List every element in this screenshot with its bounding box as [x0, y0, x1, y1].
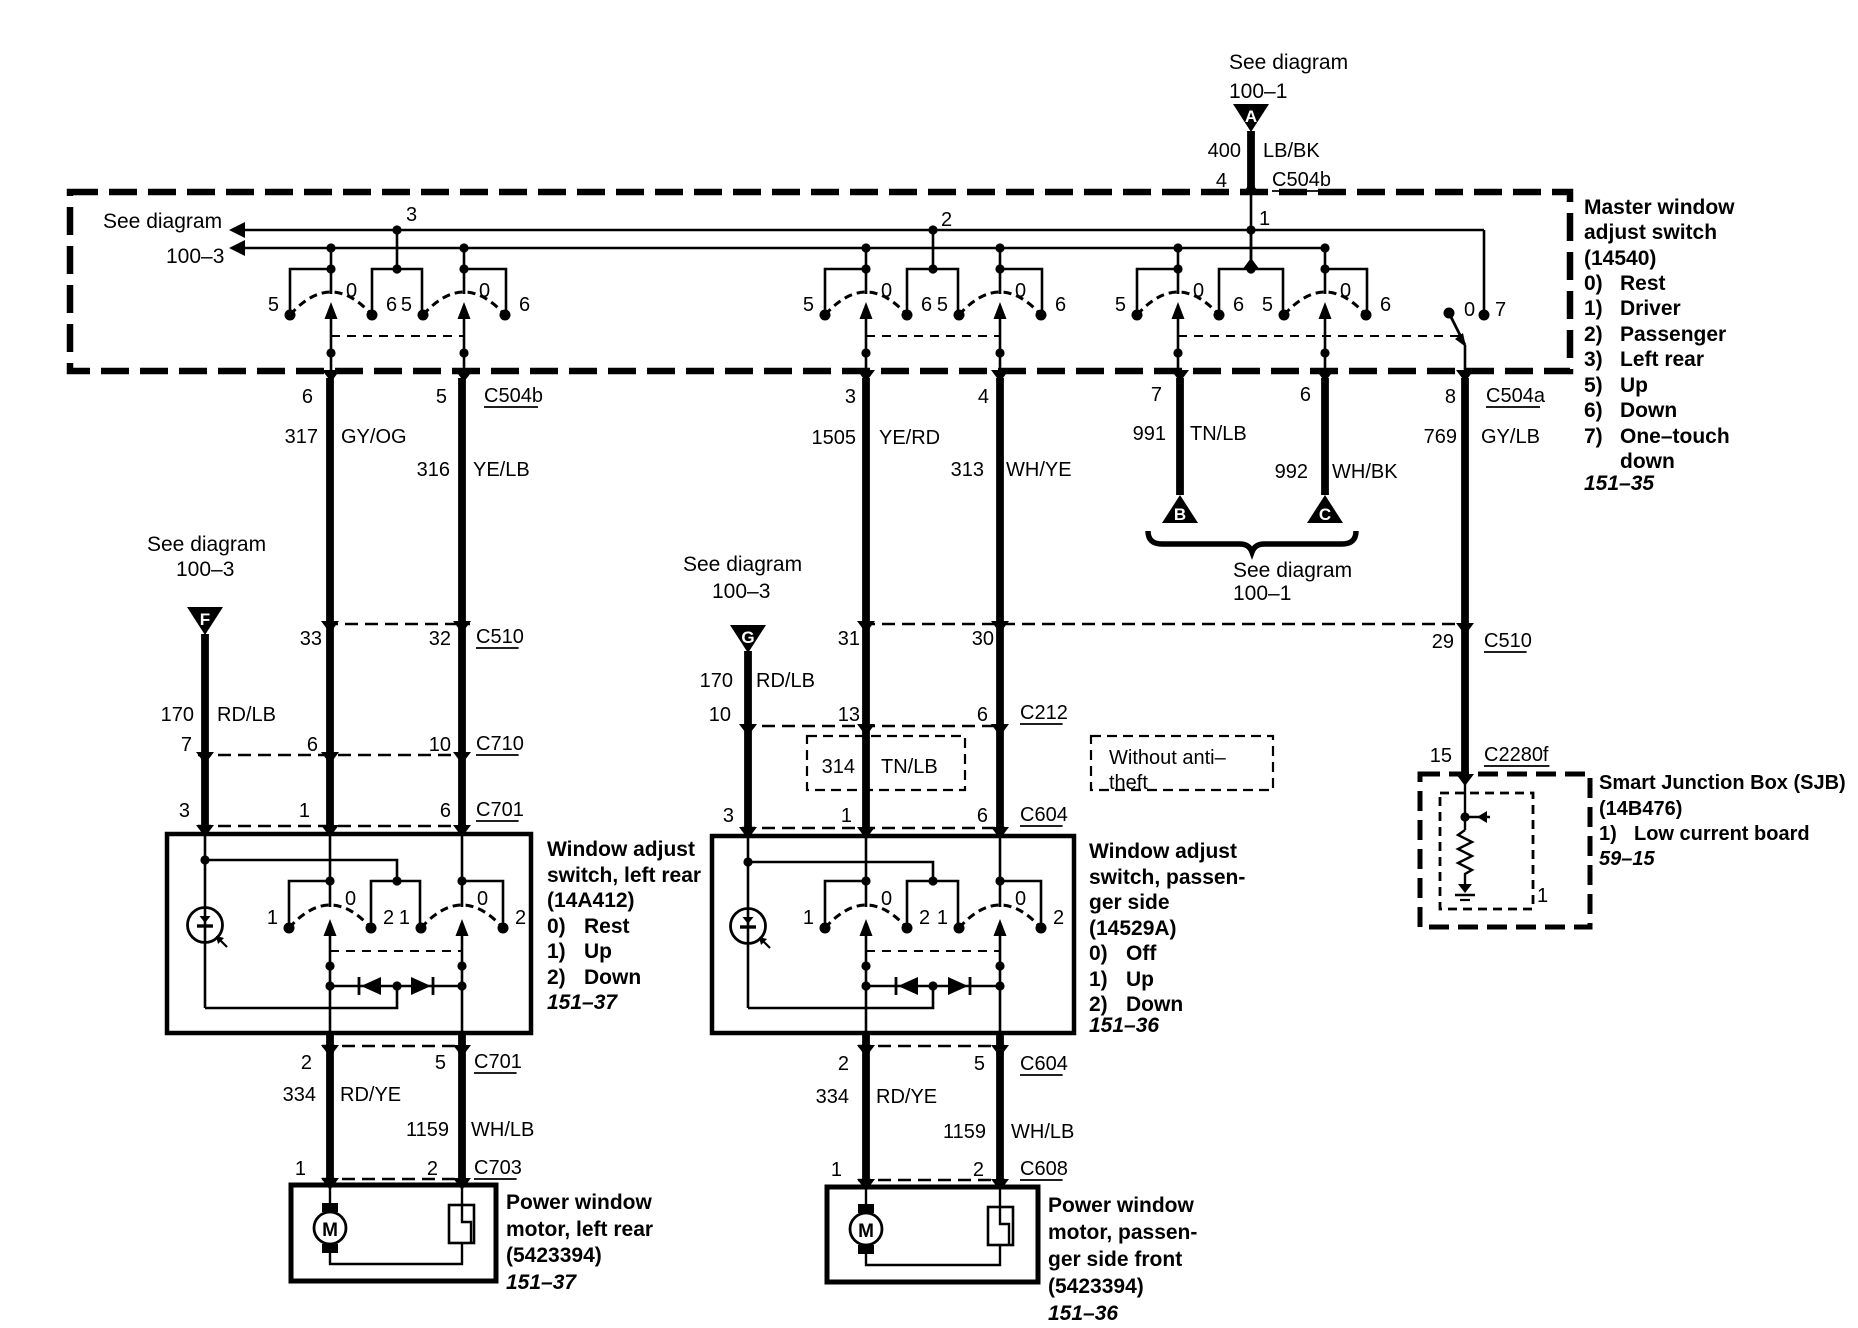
svg-text:1159: 1159	[943, 1121, 986, 1143]
svg-text:2): 2)	[1089, 993, 1108, 1016]
svg-text:GY/LB: GY/LB	[1481, 426, 1540, 448]
svg-text:100–3: 100–3	[176, 558, 234, 581]
off-page connector triangle B	[1162, 495, 1198, 523]
svg-text:Rest: Rest	[1620, 272, 1666, 295]
passenger switch unit UP (1-0-2) - contact bracket	[825, 881, 866, 926]
wire 317 GY/OG (pin 6 to left-rear switch)	[326, 378, 334, 826]
svg-text:See diagram: See diagram	[147, 533, 266, 556]
pole wires to box bottom (passenger switch)	[865, 986, 868, 1033]
svg-text:3: 3	[723, 805, 734, 827]
svg-text:2): 2)	[1584, 323, 1603, 346]
wire: circuit 3 bus to See diagram 100-3	[244, 229, 1484, 232]
left-rear switch unit UP (1-0-2) - wiper arc	[289, 905, 371, 928]
switch unit master driver one-touch (5-0-6) right - wiper arc	[423, 292, 505, 315]
pin 6 wire into left-rear switch	[461, 826, 464, 881]
wire 313 WH/YE (pin 4 to passenger switch)	[996, 378, 1004, 828]
svg-text:(5423394): (5423394)	[1048, 1275, 1144, 1298]
switch unit master driver up/down (5-0-6) left - contact bracket	[290, 269, 331, 313]
svg-text:5: 5	[268, 294, 279, 316]
pin 1 wire into left-rear switch	[329, 826, 332, 881]
svg-text:0: 0	[1193, 280, 1204, 302]
svg-text:1: 1	[299, 800, 310, 822]
passenger switch unit DOWN (1-0-2) - wiper arc	[959, 905, 1041, 928]
svg-text:RD/LB: RD/LB	[217, 704, 276, 726]
svg-text:RD/LB: RD/LB	[756, 670, 815, 692]
svg-text:Up: Up	[584, 940, 612, 963]
lamp feed/return wires (left-rear switch)	[204, 860, 207, 1008]
circuit breaker (passenger motor)	[999, 1187, 1001, 1207]
svg-text:15: 15	[1430, 745, 1452, 767]
svg-text:4: 4	[978, 386, 989, 408]
svg-text:314: 314	[822, 756, 855, 778]
svg-text:switch, left rear: switch, left rear	[547, 864, 701, 887]
svg-text:334: 334	[816, 1086, 849, 1108]
up arrow on feed from connector A into bracket	[1242, 258, 1260, 270]
svg-text:10: 10	[709, 704, 731, 726]
off-page connector triangle A	[1233, 104, 1269, 132]
wire 334 RD/YE (left rear)	[326, 1033, 334, 1185]
svg-text:C604: C604	[1020, 804, 1068, 826]
feed wire pin 3 inside passenger switch	[747, 828, 750, 862]
svg-text:5: 5	[1115, 294, 1126, 316]
connector C701 line (bottom)	[322, 1045, 466, 1047]
svg-text:100–3: 100–3	[166, 245, 224, 268]
svg-text:151–37: 151–37	[547, 991, 618, 1014]
svg-text:Power window: Power window	[506, 1191, 653, 1214]
svg-text:6: 6	[1300, 384, 1311, 406]
svg-text:10: 10	[429, 734, 451, 756]
mechanical link - left-rear pair and one-touch	[1178, 335, 1459, 337]
left-rear switch unit DOWN (1-0-2) - wiper arc	[421, 905, 503, 928]
svg-text:316: 316	[417, 459, 450, 481]
svg-text:adjust switch: adjust switch	[1584, 221, 1717, 244]
svg-text:0): 0)	[1089, 942, 1108, 965]
switch unit master left-rear down (5-0-6) right - wiper arc	[1284, 292, 1366, 315]
brace under connectors B and C	[1148, 531, 1356, 552]
svg-text:1: 1	[1259, 208, 1270, 230]
svg-text:Power window: Power window	[1048, 1194, 1195, 1217]
svg-text:5: 5	[974, 1053, 985, 1075]
ground in SJB	[1458, 884, 1472, 893]
wire 170 RD/LB from connector F	[201, 634, 209, 826]
power window motor passenger side front box (5423394)	[827, 1187, 1038, 1282]
passenger switch unit UP (1-0-2) - pole/wiper	[865, 879, 868, 907]
svg-text:See diagram: See diagram	[1233, 559, 1352, 582]
connector C510 line (right segment)	[862, 623, 1466, 625]
svg-text:100–3: 100–3	[712, 580, 770, 603]
svg-text:C212: C212	[1020, 702, 1068, 724]
svg-text:5: 5	[1262, 294, 1273, 316]
svg-text:0: 0	[1340, 280, 1351, 302]
note box: Without anti-theft	[1091, 736, 1273, 790]
svg-text:2: 2	[941, 209, 952, 231]
svg-text:C504b: C504b	[1272, 169, 1331, 191]
svg-text:2: 2	[838, 1053, 849, 1075]
svg-text:One–touch: One–touch	[1620, 425, 1730, 448]
svg-text:1): 1)	[1089, 968, 1108, 991]
left-rear switch unit UP (1-0-2) - contact bracket	[289, 881, 330, 926]
svg-text:GY/OG: GY/OG	[341, 426, 407, 448]
svg-text:C701: C701	[474, 1051, 522, 1073]
left-rear switch unit DOWN (1-0-2) - contact bracket	[462, 881, 503, 926]
svg-text:151–35: 151–35	[1584, 472, 1654, 495]
svg-text:RD/YE: RD/YE	[340, 1084, 401, 1106]
wire 316 YE/LB (pin 5 to left-rear switch)	[458, 378, 466, 826]
svg-text:(5423394): (5423394)	[506, 1244, 602, 1267]
svg-text:WH/LB: WH/LB	[471, 1119, 534, 1141]
pole wires to box bottom (left-rear switch)	[329, 986, 332, 1033]
svg-text:WH/YE: WH/YE	[1006, 459, 1072, 481]
motor M symbol (left rear)	[329, 1185, 331, 1203]
svg-text:59–15: 59–15	[1599, 848, 1655, 870]
svg-text:Rest: Rest	[584, 915, 630, 938]
svg-text:2: 2	[301, 1052, 312, 1074]
svg-text:3: 3	[406, 204, 417, 226]
svg-text:C703: C703	[474, 1157, 522, 1179]
connector C510 line (left)	[325, 623, 470, 625]
svg-text:317: 317	[285, 426, 318, 448]
connector C604 line (top)	[742, 827, 1005, 829]
svg-text:6: 6	[921, 294, 932, 316]
wire 1159 WH/LB (left rear)	[458, 1033, 466, 1185]
svg-text:6: 6	[440, 800, 451, 822]
passenger switch - common bracket	[907, 881, 958, 926]
mechanical link - driver pair	[331, 335, 464, 337]
switch unit master driver one-touch (5-0-6) right - contact bracket	[464, 269, 506, 313]
master passenger pair - common feed bracket	[928, 225, 937, 234]
switch unit master left-rear down (5-0-6) right - pole/wiper	[1320, 243, 1329, 252]
switch unit master left-rear up (5-0-6) left - wiper arc	[1137, 292, 1219, 315]
svg-text:1: 1	[267, 907, 278, 929]
svg-text:F: F	[200, 610, 210, 629]
svg-text:Driver: Driver	[1620, 297, 1681, 320]
svg-text:Passenger: Passenger	[1620, 323, 1726, 346]
connector C608 line	[858, 1179, 1005, 1181]
switch unit master passenger up (5-0-6) left - wiper arc	[825, 292, 907, 315]
svg-text:Window adjust: Window adjust	[547, 838, 695, 861]
svg-text:6: 6	[1055, 294, 1066, 316]
svg-text:2: 2	[383, 907, 394, 929]
wire: circuit 1 bus to See diagram 100-3	[244, 247, 1326, 250]
svg-text:5: 5	[401, 294, 412, 316]
svg-text:151–37: 151–37	[506, 1271, 577, 1294]
svg-text:See diagram: See diagram	[103, 210, 222, 233]
lamp feed/return wires (passenger switch)	[747, 862, 750, 1008]
switch unit master left-rear up (5-0-6) left - pole/wiper	[1173, 243, 1182, 252]
svg-text:A: A	[1245, 107, 1257, 126]
svg-text:5: 5	[435, 1052, 446, 1074]
mechanical link - passenger switch	[866, 950, 1000, 952]
passenger switch unit UP (1-0-2) - wiper arc	[825, 905, 907, 928]
left-rear switch unit DOWN (1-0-2) - pole/wiper	[461, 879, 464, 907]
wire 170 RD/LB from connector G	[744, 651, 752, 828]
svg-text:7: 7	[1495, 299, 1506, 321]
svg-text:1505: 1505	[812, 427, 857, 449]
connector C710 line	[198, 754, 466, 756]
switch unit master left-rear up (5-0-6) left - contact bracket	[1137, 269, 1178, 313]
svg-text:WH/LB: WH/LB	[1011, 1121, 1074, 1143]
svg-text:motor, left rear: motor, left rear	[506, 1218, 653, 1241]
svg-text:100–1: 100–1	[1229, 80, 1287, 103]
svg-text:313: 313	[951, 459, 984, 481]
svg-text:C: C	[1319, 505, 1331, 524]
svg-text:0: 0	[881, 888, 892, 910]
window adjust switch left rear box (14A412)	[167, 834, 531, 1033]
svg-text:8: 8	[1445, 386, 1456, 408]
svg-text:(14540): (14540)	[1584, 247, 1656, 270]
svg-text:0: 0	[1464, 299, 1475, 321]
circuit breaker (left rear motor)	[461, 1185, 463, 1205]
off-page connector triangle G	[730, 625, 766, 653]
svg-text:6: 6	[519, 294, 530, 316]
svg-text:334: 334	[283, 1084, 316, 1106]
svg-text:5: 5	[803, 294, 814, 316]
switch unit master passenger down (5-0-6) right - pole/wiper	[995, 243, 1004, 252]
svg-text:7: 7	[181, 734, 192, 756]
svg-text:M: M	[322, 1220, 338, 1241]
diode pair (left-rear switch)	[330, 985, 462, 987]
pin 1 wire into passenger switch	[865, 828, 868, 881]
svg-text:C504b: C504b	[484, 385, 543, 407]
svg-text:ger side front: ger side front	[1048, 1248, 1182, 1271]
svg-text:See diagram: See diagram	[683, 553, 802, 576]
mechanical link - left-rear switch	[330, 950, 462, 952]
svg-text:down: down	[1620, 450, 1675, 473]
svg-text:TN/LB: TN/LB	[881, 756, 938, 778]
svg-text:29: 29	[1432, 631, 1454, 653]
svg-text:3: 3	[179, 800, 190, 822]
svg-text:Left rear: Left rear	[1620, 348, 1704, 371]
svg-text:YE/RD: YE/RD	[879, 427, 940, 449]
svg-text:1: 1	[295, 1158, 306, 1180]
svg-text:5: 5	[937, 294, 948, 316]
window adjust switch passenger side box (14529A)	[712, 836, 1074, 1033]
svg-text:2: 2	[919, 907, 930, 929]
svg-text:YE/LB: YE/LB	[473, 459, 530, 481]
master window adjust switch box (14540)	[70, 192, 1570, 371]
svg-text:0: 0	[477, 888, 488, 910]
svg-text:2: 2	[1053, 907, 1064, 929]
svg-text:100–1: 100–1	[1233, 582, 1291, 605]
svg-text:151–36: 151–36	[1089, 1014, 1159, 1037]
wire 991 TN/LB (pin 7 to connector B)	[1176, 378, 1184, 495]
svg-text:170: 170	[161, 704, 194, 726]
motor internal return wire (left rear)	[330, 1243, 462, 1264]
svg-text:0: 0	[479, 280, 490, 302]
svg-text:2: 2	[973, 1159, 984, 1181]
svg-text:1159: 1159	[406, 1119, 449, 1141]
svg-text:C2280f: C2280f	[1484, 744, 1549, 766]
motor M symbol (passenger)	[865, 1187, 867, 1204]
connector C703 line	[322, 1178, 466, 1180]
master left-rear pair - common feed bracket	[1246, 225, 1255, 234]
svg-text:7): 7)	[1584, 425, 1603, 448]
svg-text:1): 1)	[1599, 823, 1617, 845]
svg-text:1: 1	[937, 907, 948, 929]
resistor in SJB	[1458, 830, 1472, 884]
svg-text:G: G	[741, 628, 754, 647]
connector C604 line (bottom)	[858, 1045, 1005, 1047]
svg-text:13: 13	[838, 704, 860, 726]
svg-text:switch, passen-: switch, passen-	[1089, 866, 1245, 889]
svg-text:30: 30	[972, 628, 994, 650]
svg-text:3): 3)	[1584, 348, 1603, 371]
splice label box 314 TN/LB	[807, 736, 965, 790]
switch unit master passenger up (5-0-6) left - contact bracket	[825, 269, 866, 313]
wire 992 WH/BK (pin 6 to connector C)	[1321, 378, 1329, 495]
illumination lamp in left-rear switch	[188, 908, 223, 943]
svg-text:6): 6)	[1584, 399, 1603, 422]
svg-text:Smart Junction Box (SJB): Smart Junction Box (SJB)	[1599, 772, 1846, 794]
svg-text:6: 6	[302, 386, 313, 408]
svg-text:LB/BK: LB/BK	[1263, 140, 1320, 162]
svg-text:0: 0	[1015, 888, 1026, 910]
svg-text:C701: C701	[476, 799, 524, 821]
svg-text:C608: C608	[1020, 1158, 1068, 1180]
svg-text:Down: Down	[1126, 993, 1183, 1016]
svg-text:M: M	[858, 1221, 874, 1242]
passenger switch unit DOWN (1-0-2) - pole/wiper	[999, 879, 1002, 907]
switch unit master driver up/down (5-0-6) left - pole/wiper	[326, 243, 335, 252]
svg-text:Up: Up	[1620, 374, 1648, 397]
wire 334 RD/YE (passenger)	[862, 1033, 870, 1187]
svg-text:7: 7	[1151, 384, 1162, 406]
mechanical link - passenger pair	[866, 335, 1000, 337]
svg-text:TN/LB: TN/LB	[1190, 423, 1247, 445]
svg-text:(14B476): (14B476)	[1599, 798, 1682, 820]
switch unit master passenger down (5-0-6) right - contact bracket	[1000, 269, 1042, 313]
feed wire pin 3 inside left-rear switch	[204, 826, 207, 860]
one-touch down switch (0-7)	[1483, 230, 1486, 311]
passenger switch unit DOWN (1-0-2) - contact bracket	[1000, 881, 1041, 926]
master driver pair - common feed bracket	[392, 225, 401, 234]
svg-text:Master window: Master window	[1584, 196, 1735, 219]
switch unit master left-rear down (5-0-6) right - contact bracket	[1325, 269, 1367, 313]
svg-text:ger side: ger side	[1089, 891, 1170, 914]
wire 769 GY/LB (pin 8 to SJB)	[1461, 378, 1469, 775]
svg-text:2: 2	[515, 907, 526, 929]
svg-text:C504a: C504a	[1486, 385, 1546, 407]
svg-text:Window adjust: Window adjust	[1089, 840, 1237, 863]
svg-text:6: 6	[977, 704, 988, 726]
svg-text:1: 1	[831, 1159, 842, 1181]
off-page connector triangle C	[1307, 495, 1343, 523]
svg-text:991: 991	[1133, 423, 1166, 445]
svg-text:6: 6	[1233, 294, 1244, 316]
svg-text:31: 31	[838, 628, 860, 650]
wire 1159 WH/LB (passenger)	[996, 1033, 1004, 1187]
connector C212 line	[742, 725, 1005, 727]
svg-text:theft: theft	[1109, 772, 1148, 794]
svg-text:6: 6	[1380, 294, 1391, 316]
svg-text:1: 1	[1537, 885, 1548, 907]
svg-text:1): 1)	[547, 940, 566, 963]
connector C701 line (top)	[198, 825, 466, 827]
svg-text:RD/YE: RD/YE	[876, 1086, 937, 1108]
diode pair (passenger switch)	[866, 985, 1000, 987]
svg-text:1: 1	[399, 907, 410, 929]
left-rear switch - common bracket	[371, 881, 420, 926]
svg-text:0: 0	[881, 280, 892, 302]
svg-text:4: 4	[1216, 170, 1227, 192]
svg-text:Down: Down	[1620, 399, 1677, 422]
svg-text:0): 0)	[1584, 272, 1603, 295]
svg-text:3: 3	[845, 386, 856, 408]
svg-text:1: 1	[841, 805, 852, 827]
svg-text:B: B	[1174, 505, 1186, 524]
svg-text:769: 769	[1424, 426, 1457, 448]
svg-text:170: 170	[700, 670, 733, 692]
svg-text:Off: Off	[1126, 942, 1157, 965]
svg-text:Low current board: Low current board	[1634, 823, 1810, 845]
svg-text:1: 1	[803, 907, 814, 929]
wire 400 LB/BK from connector A	[1247, 131, 1255, 191]
svg-text:C604: C604	[1020, 1053, 1068, 1075]
svg-text:C510: C510	[1484, 630, 1532, 652]
svg-text:C710: C710	[476, 733, 524, 755]
down arrows at C504 connector line	[322, 370, 340, 382]
switch unit master passenger up (5-0-6) left - pole/wiper	[861, 243, 870, 252]
svg-text:0: 0	[345, 888, 356, 910]
svg-text:1): 1)	[1584, 297, 1603, 320]
svg-text:6: 6	[307, 734, 318, 756]
smart junction box (SJB) outer box	[1420, 774, 1590, 927]
svg-text:WH/BK: WH/BK	[1332, 461, 1398, 483]
SJB internal wire and tap	[1464, 775, 1466, 830]
svg-text:6: 6	[977, 805, 988, 827]
svg-text:6: 6	[386, 294, 397, 316]
left-rear switch unit UP (1-0-2) - pole/wiper	[329, 879, 332, 907]
power window motor left rear box (5423394)	[291, 1185, 496, 1281]
illumination lamp in passenger switch	[731, 909, 766, 944]
svg-text:Up: Up	[1126, 968, 1154, 991]
svg-text:0: 0	[346, 280, 357, 302]
wire 1505 YE/RD (pin 3 to passenger switch)	[862, 378, 870, 828]
svg-text:Down: Down	[584, 966, 641, 989]
svg-text:0): 0)	[547, 915, 566, 938]
svg-text:0: 0	[1015, 280, 1026, 302]
svg-text:2: 2	[427, 1158, 438, 1180]
svg-text:2): 2)	[547, 966, 566, 989]
switch unit master passenger down (5-0-6) right - wiper arc	[959, 292, 1041, 315]
svg-text:33: 33	[300, 628, 322, 650]
svg-text:32: 32	[429, 628, 451, 650]
svg-text:151–36: 151–36	[1048, 1302, 1118, 1325]
svg-text:Without anti–: Without anti–	[1109, 747, 1227, 769]
pin 6 wire into passenger switch	[999, 828, 1002, 881]
off-page connector triangle F	[187, 607, 223, 635]
motor internal return wire (passenger)	[866, 1245, 1000, 1265]
svg-text:(14529A): (14529A)	[1089, 917, 1177, 940]
switch unit master driver up/down (5-0-6) left - wiper arc	[290, 292, 372, 315]
svg-text:5: 5	[436, 386, 447, 408]
svg-text:See diagram: See diagram	[1229, 51, 1348, 74]
low current board inner box	[1440, 793, 1533, 909]
svg-text:5): 5)	[1584, 374, 1603, 397]
svg-text:(14A412): (14A412)	[547, 889, 635, 912]
svg-text:992: 992	[1275, 461, 1308, 483]
svg-text:motor, passen-: motor, passen-	[1048, 1221, 1197, 1244]
switch unit master driver one-touch (5-0-6) right - pole/wiper	[459, 243, 468, 252]
svg-text:400: 400	[1208, 140, 1241, 162]
svg-text:C510: C510	[476, 626, 524, 648]
